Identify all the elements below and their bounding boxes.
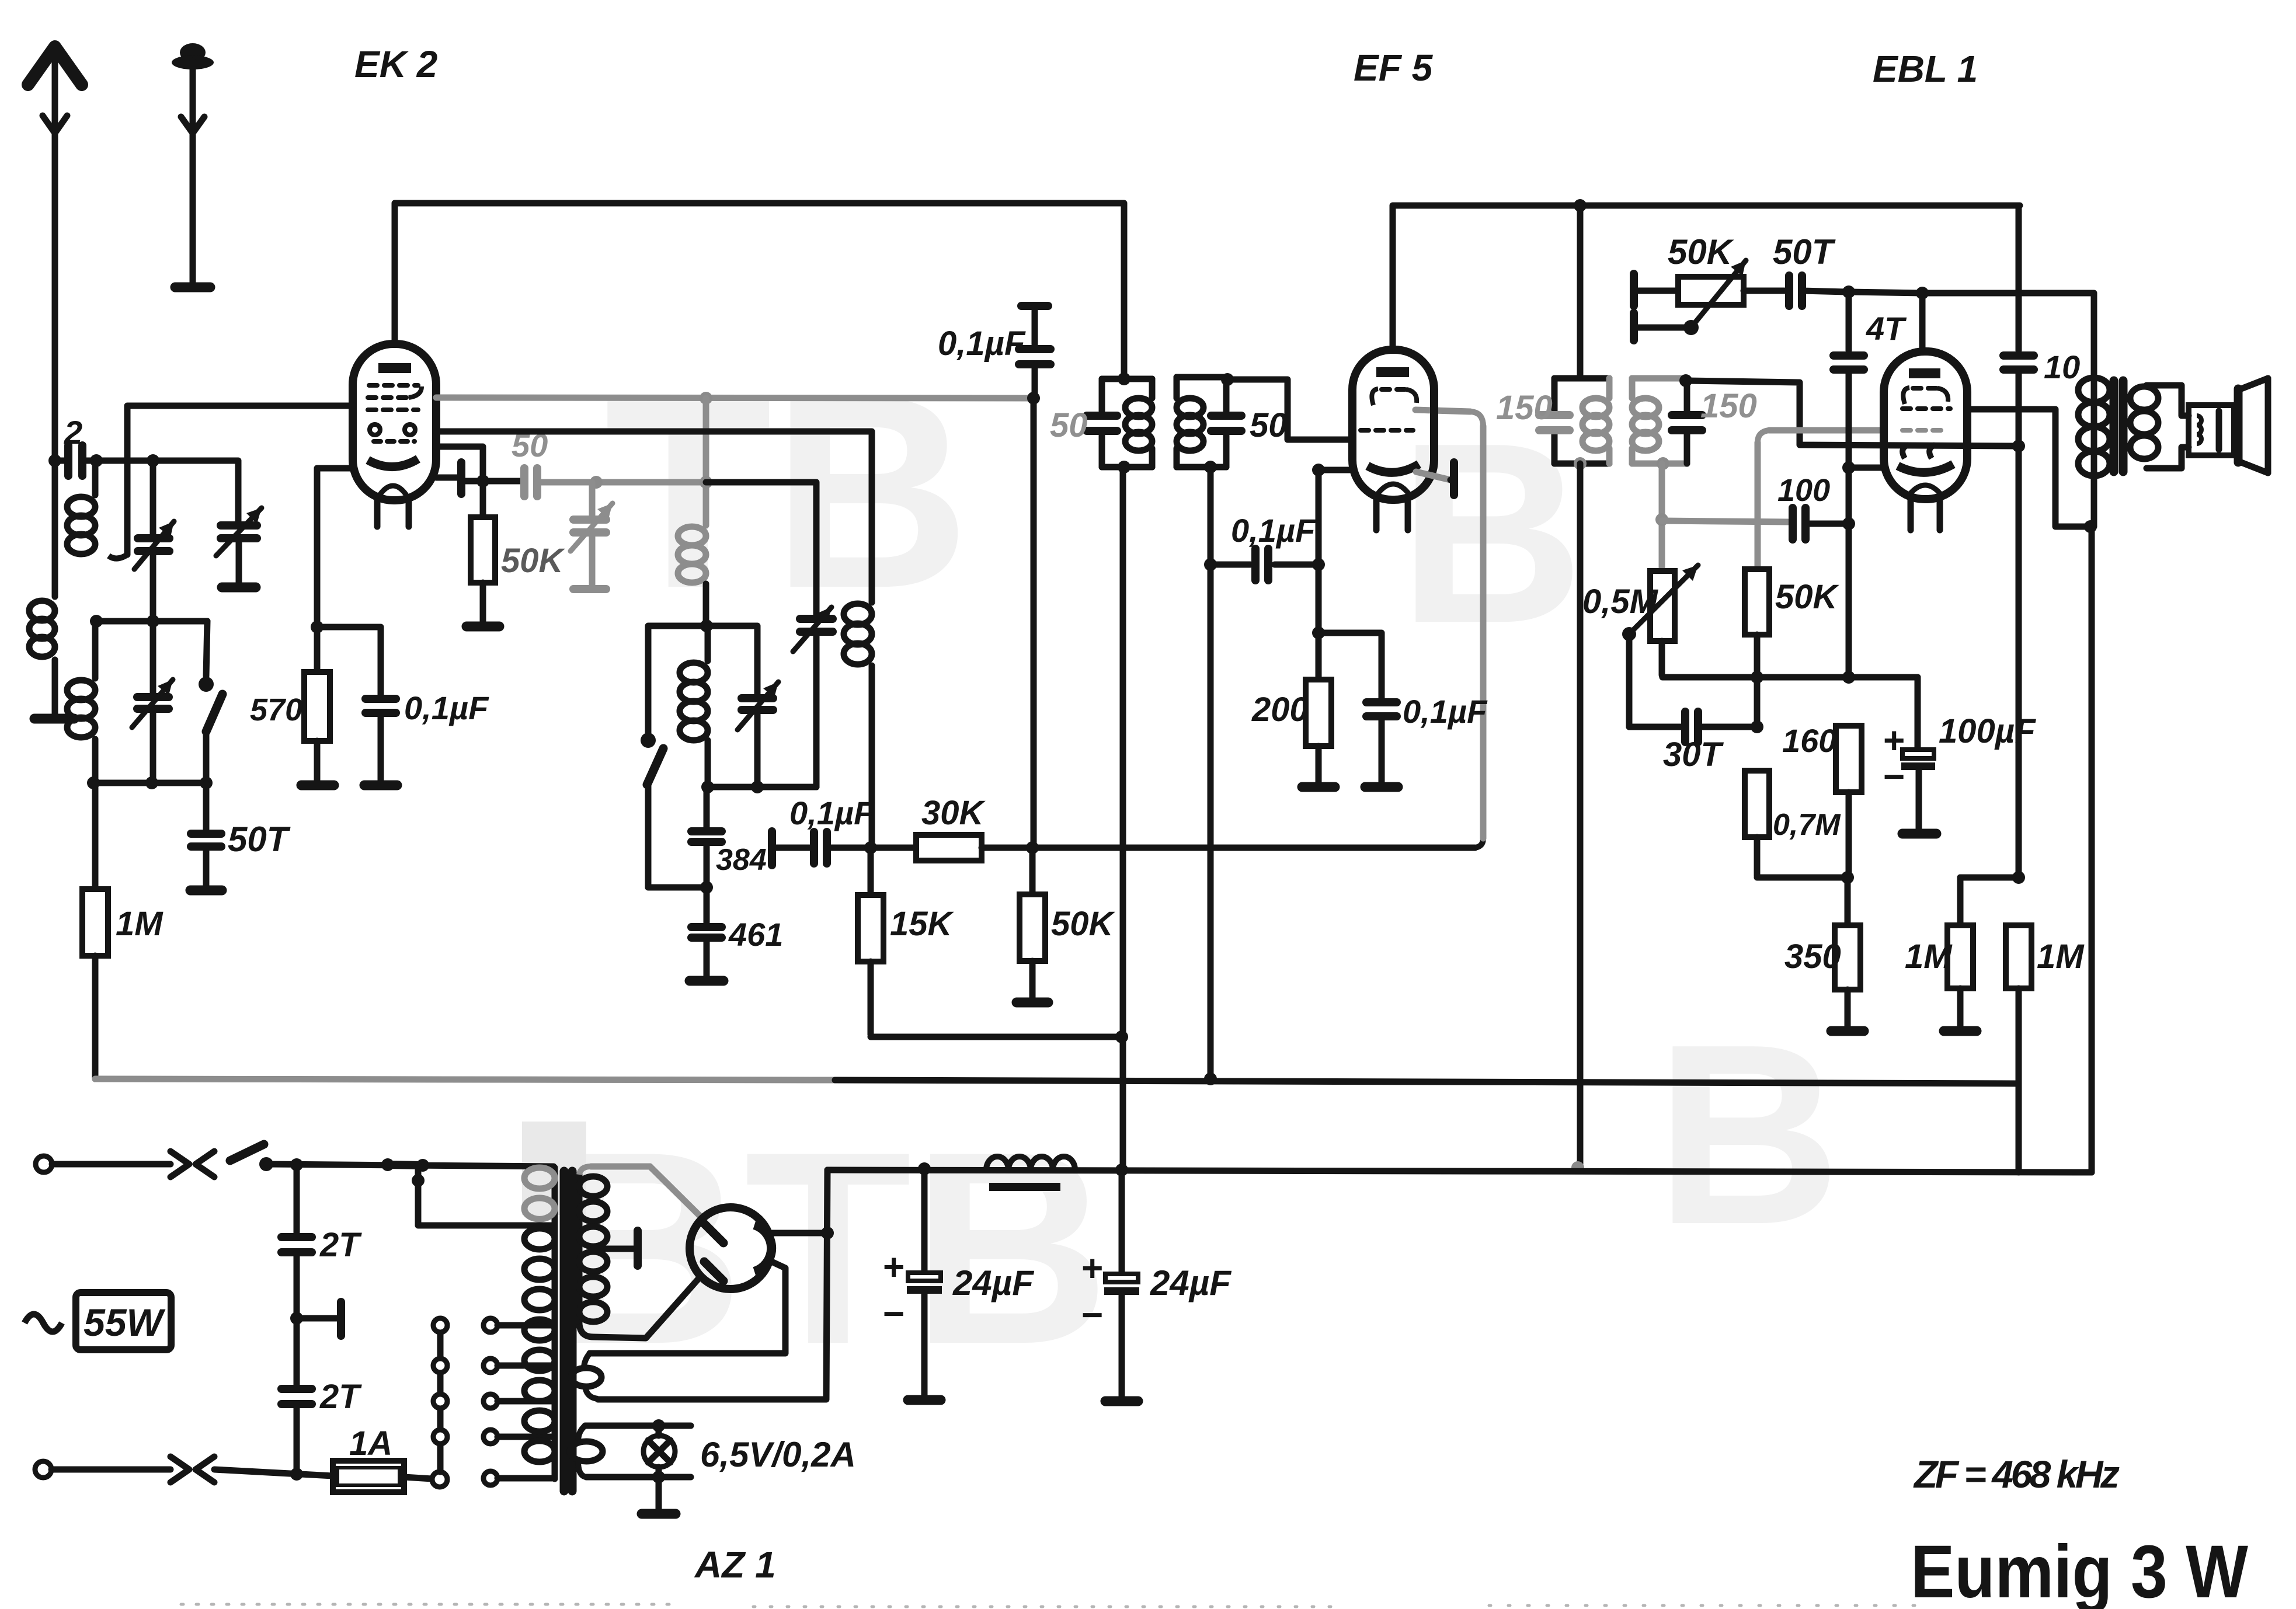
trafo center tap bbox=[593, 1246, 634, 1252]
trafo HT bottom lead bbox=[579, 1324, 646, 1338]
EF5 cathode bbox=[1368, 464, 1419, 472]
node 4T top bbox=[1842, 285, 1855, 298]
capacitor 0.1uF EK2 bbox=[366, 695, 396, 703]
wire EK2 screen bbox=[436, 447, 483, 517]
wire IF1 pri return bbox=[1120, 467, 1126, 1170]
antenna coil L1 bbox=[29, 601, 55, 621]
svg-text:ZF = 468 kHz: ZF = 468 kHz bbox=[1913, 1453, 2120, 1496]
EF5 grid row1 bbox=[1372, 389, 1378, 405]
potentiometer 50K tone bbox=[1637, 288, 1678, 294]
svg-text:Eumig 3 W: Eumig 3 W bbox=[1911, 1530, 2248, 1609]
node 0.7M top wire bbox=[1751, 671, 1763, 684]
EBL1 cathode bbox=[1898, 464, 1953, 472]
wire gray EK2 g-row to AVC bbox=[436, 398, 1030, 398]
EF5 metallization bbox=[1416, 472, 1450, 480]
wire to 0.1uF bbox=[317, 627, 381, 695]
wire B+ rail bbox=[827, 1170, 2092, 1172]
node gray pad bbox=[590, 476, 603, 489]
IF2 primary tank bbox=[1554, 375, 1609, 382]
svg-text:−: − bbox=[1883, 755, 1905, 797]
wire EF5 cath vertical bbox=[1316, 470, 1322, 680]
capacitor 0.1uF IF bbox=[1210, 562, 1250, 568]
EK2 grid g3 row with hook bbox=[368, 395, 409, 400]
capacitor 50T bbox=[1744, 288, 1784, 294]
wire 1M pair top bbox=[1960, 875, 2019, 881]
switch S1b osc bbox=[641, 733, 656, 748]
EK2 heater legs bbox=[374, 500, 381, 527]
wire OPT pri top bbox=[2088, 293, 2094, 377]
wire IF1 sec to EF5 grid bbox=[1226, 379, 1352, 440]
coil OPT secondary bbox=[2130, 386, 2158, 410]
svg-text:30T: 30T bbox=[1663, 736, 1724, 774]
EF5 grid row2 bbox=[1361, 428, 1413, 433]
wire fuse out bbox=[404, 1477, 432, 1479]
earth aerial symbol bbox=[180, 43, 206, 62]
wire EK2 cathode left bbox=[317, 468, 353, 624]
svg-text:0,1µF: 0,1µF bbox=[1231, 512, 1316, 549]
chassis tap bar bbox=[297, 1315, 338, 1322]
svg-text:10: 10 bbox=[2044, 349, 2080, 385]
terminal mains N bbox=[35, 1461, 51, 1478]
svg-text:50K: 50K bbox=[1051, 905, 1116, 943]
wire IF2 sec to diode bbox=[1686, 381, 2019, 446]
wire junction row2 bbox=[93, 780, 206, 786]
OPT core bbox=[2110, 381, 2118, 472]
node AVC gray bbox=[1027, 392, 1040, 405]
svg-text:50T: 50T bbox=[228, 820, 291, 859]
svg-text:50T: 50T bbox=[1773, 232, 1836, 271]
resistor 50K EK2 bbox=[471, 517, 495, 583]
EK2 metallization bar bbox=[457, 462, 465, 494]
wire 15K to IF1 return bbox=[871, 1034, 1122, 1040]
trafo 4V winding bbox=[571, 1368, 601, 1387]
resistor 50K IF bbox=[1029, 848, 1036, 894]
mains break N bbox=[171, 1457, 189, 1482]
trafo HT secondary bbox=[576, 1175, 583, 1324]
node osc junction bbox=[700, 619, 713, 632]
svg-text:50K: 50K bbox=[1775, 578, 1840, 616]
svg-text:−: − bbox=[1081, 1294, 1103, 1336]
svg-text:2: 2 bbox=[64, 414, 82, 451]
AZ1 anode 1 bbox=[704, 1224, 723, 1243]
node 30T right bbox=[1751, 720, 1763, 733]
wire mains L bbox=[52, 1161, 171, 1168]
speaker cone bbox=[2234, 389, 2243, 462]
wire IF2 pri return bbox=[1577, 464, 1584, 1168]
wire speaker top bbox=[2147, 385, 2189, 416]
svg-text:EF 5: EF 5 bbox=[1354, 47, 1434, 89]
node IF2 pri bottom bbox=[1574, 457, 1587, 470]
wire cath to cap bbox=[1319, 633, 1382, 698]
EF5 anode bar bbox=[1376, 367, 1409, 377]
wire EK2 cathode right bbox=[436, 475, 460, 481]
svg-text:−: − bbox=[883, 1293, 905, 1335]
trimmer osc parallel bbox=[742, 694, 773, 702]
trimmer C-ant2 bbox=[221, 521, 257, 530]
coil L4 osc feedback gray bbox=[678, 527, 706, 545]
capacitor 0.1uF cath bbox=[1366, 698, 1397, 706]
wire pot bottom bbox=[1662, 641, 1918, 677]
EBL1 diode plates bbox=[1902, 445, 1908, 458]
capacitor 50 coupling bbox=[520, 468, 528, 496]
svg-text:+: + bbox=[1081, 1247, 1103, 1289]
wire EK2 osc anode bbox=[436, 431, 872, 602]
resistor 50K AVC bbox=[1769, 427, 1884, 434]
node IF2 sec top bbox=[1679, 374, 1692, 387]
svg-text:TB: TB bbox=[604, 339, 970, 645]
wire to trimmer2 bbox=[153, 461, 238, 521]
node osc top bbox=[700, 392, 712, 405]
EBL1 grid row1 bbox=[1903, 388, 1909, 404]
node AVC-100 bbox=[1655, 513, 1668, 526]
wire speaker bottom bbox=[2147, 447, 2189, 468]
svg-text:EBL 1: EBL 1 bbox=[1873, 48, 1978, 90]
EBL1 heater bbox=[1909, 485, 1941, 494]
svg-text:2T: 2T bbox=[319, 1378, 362, 1416]
wire EBL1 screen bbox=[1967, 409, 2088, 527]
svg-text:0,1µF: 0,1µF bbox=[789, 795, 875, 831]
terminal mains L bbox=[36, 1156, 52, 1172]
svg-text:461: 461 bbox=[728, 916, 783, 953]
svg-text:+: + bbox=[883, 1246, 905, 1288]
capacitor 384 bbox=[704, 787, 710, 827]
voltage selector left bbox=[432, 1472, 447, 1487]
wire 6V bottom bbox=[586, 1474, 691, 1481]
capacitor 2T b bbox=[294, 1318, 300, 1385]
svg-text:0,5M: 0,5M bbox=[1582, 583, 1659, 621]
EBL1 heater legs bbox=[1908, 499, 1914, 530]
tube EF5 envelope bbox=[1352, 350, 1434, 500]
node 160 bottom bbox=[1841, 871, 1854, 884]
svg-text:1M: 1M bbox=[2037, 938, 2085, 976]
resistor 160 bbox=[1836, 726, 1862, 792]
node IF1 sec bottom bbox=[1204, 461, 1217, 473]
svg-text:24µF: 24µF bbox=[1150, 1263, 1232, 1302]
terminal 0.1uF series bbox=[768, 831, 776, 865]
resistor 1M a bbox=[1957, 877, 1964, 925]
capacitor 461 bbox=[704, 887, 710, 924]
trafo 6V winding bbox=[570, 1441, 603, 1461]
EBL1 grid row3 gray bbox=[1902, 428, 1948, 433]
node L2 top bbox=[90, 454, 103, 467]
node IF1 pri bottom bbox=[1118, 461, 1130, 473]
IF1 primary tank bbox=[1102, 376, 1152, 382]
wire AVC vertical bbox=[1031, 398, 1037, 848]
terminal bar antenna coil bbox=[34, 714, 74, 724]
EBL1 grid row2 bbox=[1902, 406, 1950, 411]
node 30K-AVC bbox=[1026, 841, 1039, 854]
label 55W box bbox=[76, 1293, 171, 1350]
voltage selector right bbox=[483, 1318, 498, 1332]
potentiometer 0.5M bbox=[1650, 571, 1675, 641]
node 2T top bbox=[290, 1158, 303, 1171]
node osc tap bbox=[700, 476, 712, 489]
wire 4V top to AZ1 fil bbox=[590, 1260, 785, 1353]
wire junction row1 bbox=[96, 618, 207, 625]
wire EK2 anode top bus bbox=[395, 203, 1124, 377]
resistor 30K bbox=[871, 845, 916, 851]
wire 1M b to rail bbox=[2016, 988, 2022, 1172]
node 24uF a bbox=[918, 1162, 931, 1175]
wire osc left loop bbox=[648, 626, 707, 733]
wire wiper down bbox=[1626, 634, 1633, 727]
EK2 grid g4 dashes bbox=[369, 383, 418, 388]
AZ1 filament bbox=[754, 1225, 771, 1272]
trafo HT top lead bbox=[579, 1166, 591, 1175]
wire tap bbox=[418, 1165, 554, 1225]
svg-text:1M: 1M bbox=[116, 905, 163, 943]
terminal 50K pot upper bbox=[1630, 274, 1638, 306]
tube EK2 envelope bbox=[353, 344, 436, 500]
EF5 heater bbox=[1378, 484, 1408, 493]
svg-text:1M: 1M bbox=[1905, 938, 1953, 976]
wire IF2 sec return gray bbox=[1659, 464, 1665, 571]
wire trimmer1 down bbox=[150, 552, 156, 621]
tube EBL1 envelope bbox=[1884, 351, 1967, 499]
resistor 570 bbox=[314, 627, 321, 672]
node tap bbox=[412, 1174, 425, 1187]
capacitor 0.1uF series bbox=[772, 845, 810, 851]
svg-text:50K: 50K bbox=[501, 542, 566, 580]
svg-text:30K: 30K bbox=[921, 794, 986, 832]
node osc sw join bbox=[700, 881, 713, 894]
capacitor 10 bbox=[2016, 207, 2022, 350]
node cathode-50K bbox=[476, 475, 489, 487]
EK2 cathode bbox=[368, 459, 418, 467]
svg-text:150: 150 bbox=[1496, 389, 1553, 427]
AZ1 anode 2 bbox=[704, 1262, 723, 1281]
node diode-10cap bbox=[2012, 440, 2025, 452]
capacitor 100 bbox=[1662, 521, 1788, 522]
IF1 secondary tank bbox=[1177, 374, 1226, 381]
trimmer osc padder bbox=[706, 482, 816, 614]
wire 4T down bbox=[1846, 468, 1852, 677]
node cath-left bbox=[311, 621, 323, 633]
node 2T mid bbox=[290, 1312, 303, 1325]
wire IF2 pri feed bbox=[1577, 206, 1584, 378]
trafo primary bbox=[552, 1168, 558, 1479]
svg-text:570: 570 bbox=[250, 692, 302, 727]
svg-text:150: 150 bbox=[1700, 387, 1757, 425]
svg-text:100: 100 bbox=[1777, 473, 1830, 508]
wire antenna down-lead bbox=[52, 50, 58, 597]
svg-text:0,1µF: 0,1µF bbox=[938, 325, 1026, 363]
trimmer gray padder bbox=[589, 482, 596, 516]
node EF5 cath low bbox=[1312, 626, 1325, 639]
wire EF5 cathode left bbox=[1319, 467, 1352, 473]
capacitor 4T bbox=[1846, 292, 1852, 350]
capacitor 2T a bbox=[294, 1165, 300, 1233]
pilot lamp bbox=[643, 1436, 675, 1467]
resistor 1M b bbox=[2006, 925, 2031, 988]
node EBL1 cath left bbox=[1842, 461, 1855, 474]
svg-text:AZ 1: AZ 1 bbox=[694, 1544, 776, 1586]
svg-text:B: B bbox=[1655, 991, 1841, 1278]
svg-text:50: 50 bbox=[1050, 406, 1088, 444]
wire AVC to EF5 grid bbox=[1032, 845, 1475, 851]
svg-text:55W: 55W bbox=[84, 1301, 165, 1344]
choke filter bbox=[986, 1157, 1075, 1170]
node OPT bottom bbox=[2084, 520, 2097, 533]
wire osc bottom row bbox=[708, 784, 816, 790]
wire osc right branch bbox=[707, 626, 757, 695]
svg-text:EK 2: EK 2 bbox=[354, 43, 437, 85]
svg-text:2T: 2T bbox=[319, 1226, 362, 1264]
mains break L bbox=[171, 1151, 189, 1177]
wire grid line bbox=[1849, 292, 1922, 293]
resistor 200 bbox=[1306, 680, 1331, 746]
wire cathode to cap50 bbox=[461, 478, 523, 485]
fuse 1A bbox=[333, 1461, 404, 1492]
symbol AC bbox=[25, 1314, 62, 1332]
svg-text:0,1µF: 0,1µF bbox=[1403, 693, 1488, 730]
wire 4V bottom to B+ bbox=[598, 1170, 827, 1399]
node 100-right bbox=[1842, 517, 1855, 530]
capacitor 30T bbox=[1629, 724, 1682, 730]
svg-text:200: 200 bbox=[1251, 691, 1309, 729]
node ant-cap bbox=[48, 454, 61, 467]
wire 6V top bbox=[585, 1423, 691, 1429]
tube AZ1 envelope bbox=[690, 1207, 771, 1289]
node IF2 sec bottom bbox=[1657, 457, 1669, 470]
resistor 15K bbox=[868, 848, 874, 895]
wire gray osc vertical bbox=[703, 398, 709, 525]
coil L3 tuning bbox=[92, 621, 99, 678]
switch S1a bbox=[206, 621, 207, 676]
IF2 secondary tank bbox=[1632, 375, 1687, 382]
capacitor 50T bbox=[203, 783, 210, 829]
paper noise bottom bbox=[181, 1604, 1927, 1607]
watermark bbox=[522, 339, 1841, 1401]
wire grid return bus bbox=[95, 1079, 835, 1080]
EK2 grid g2 dashes bbox=[368, 408, 418, 412]
wire EK2 grid to ant coil bbox=[127, 406, 353, 555]
coil L5 oscillator bbox=[705, 626, 711, 661]
node 160 top bbox=[1842, 671, 1855, 684]
speaker voice coil bbox=[2189, 405, 2234, 455]
wire gray cathode-osc bbox=[538, 479, 706, 486]
wire N to fuse bbox=[214, 1469, 333, 1476]
terminal bar trimmer2 bbox=[222, 583, 256, 593]
wire IF1 sec return bbox=[1208, 467, 1214, 1079]
svg-text:0,1µF: 0,1µF bbox=[404, 689, 489, 726]
svg-text:160: 160 bbox=[1782, 722, 1836, 759]
resistor 0.7M bbox=[1745, 771, 1769, 837]
trimmer C-ant3 bbox=[150, 621, 156, 695]
svg-text:350: 350 bbox=[1784, 938, 1841, 976]
svg-text:1A: 1A bbox=[349, 1425, 392, 1462]
wire EBL1 grid lead bbox=[1919, 293, 1926, 351]
switch mains bbox=[230, 1144, 264, 1161]
EK2 grid g1 circles bbox=[370, 424, 380, 435]
capacitor 24uF b bbox=[1119, 1170, 1125, 1273]
capacitor 24uF a bbox=[921, 1169, 928, 1272]
capacitor 2pF bbox=[55, 458, 64, 464]
node trimmer1 top bbox=[147, 454, 159, 467]
node osc-AVC bbox=[864, 841, 877, 854]
resistor 350 bbox=[1845, 877, 1851, 925]
svg-text:24µF: 24µF bbox=[952, 1263, 1034, 1302]
EBL1 anode bar bbox=[1909, 368, 1940, 378]
antenna symbol bbox=[28, 47, 82, 85]
svg-text:50K: 50K bbox=[1668, 232, 1734, 271]
wire AZ1 cathode out bbox=[770, 1230, 827, 1237]
svg-text:384: 384 bbox=[716, 843, 767, 877]
svg-text:4T: 4T bbox=[1866, 310, 1907, 347]
node IF1 pri top bbox=[1118, 372, 1130, 385]
EK2 heater bbox=[380, 486, 406, 495]
svg-text:50: 50 bbox=[1250, 406, 1288, 444]
svg-text:15K: 15K bbox=[890, 905, 955, 943]
wire OPT to B+ rail bbox=[2089, 527, 2095, 1172]
trimmer C-ant1 bbox=[150, 461, 156, 534]
EK2 anode bar bbox=[378, 363, 411, 373]
wire EBL1 cath left bbox=[1849, 465, 1884, 471]
coil L6 osc anode bbox=[844, 604, 872, 625]
terminal 0.1uF AVC top bbox=[1021, 302, 1048, 310]
coil L2 antenna secondary bbox=[92, 461, 99, 495]
capacitor 100uF bbox=[1915, 677, 1921, 748]
resistor 1M left bbox=[92, 783, 99, 889]
node IF2 pri top bbox=[1574, 199, 1587, 212]
terminal 50K pot lower bbox=[1630, 313, 1638, 340]
node wiper 0.5M bbox=[1622, 627, 1636, 641]
EF5 heater legs bbox=[1373, 500, 1380, 530]
svg-text:6,5V/0,2A: 6,5V/0,2A bbox=[700, 1435, 856, 1474]
wire EF5 anode bus bbox=[1393, 206, 2020, 350]
svg-text:0,7M: 0,7M bbox=[1773, 808, 1841, 842]
trafo core bbox=[560, 1171, 569, 1491]
coil OPT primary bbox=[2091, 377, 2097, 527]
capacitor 0.1uF AVC bbox=[1032, 306, 1038, 344]
wire mains N bbox=[51, 1467, 171, 1473]
wire mains to trafo bbox=[266, 1164, 554, 1166]
